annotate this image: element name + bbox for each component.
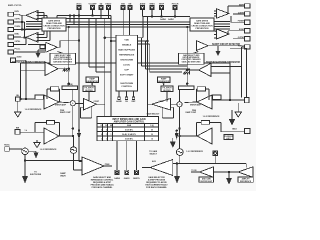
pin 6 [128,6,132,36]
svg-text:GAIN0: GAIN0 [114,177,120,180]
svg-text:TO SD: TO SD [191,170,197,172]
pin 4 [107,6,111,19]
svg-text:VREG: VREG [149,4,155,6]
resistor R20 [179,86,195,90]
wire staircase right [138,38,191,72]
wire mid horizontals [21,60,231,99]
svg-text:ERROR AMP: ERROR AMP [55,104,67,107]
wire top bus left [57,15,111,117]
IC bottom pin 1 [118,91,121,100]
op-amp A12 (left comparator lower) [21,62,70,76]
wire error to sum [59,101,70,104]
terminal P2 [8,20,22,24]
svg-text:REFERENCES: REFERENCES [119,54,134,56]
terminal R3 [231,16,250,25]
svg-text:+: + [72,102,74,106]
resistor R23 feedback [196,121,221,137]
svg-text:RAMP COMP: RAMP COMP [60,111,71,114]
resistor R21 input [213,95,222,99]
box OSC left [83,86,95,92]
wire osc3 down [142,156,246,177]
waveform icon right [183,72,189,75]
svg-text:1 k: 1 k [25,130,28,132]
ground G3 [235,103,242,117]
svg-text:LOGIC: LOGIC [123,64,130,66]
driver U6 (half-bridge, right bottom) [217,29,230,39]
svg-text:AVG: AVG [152,160,156,163]
svg-text:1.6-V REFERENCE: 1.6-V REFERENCE [203,116,220,118]
svg-text:STARTUP-SHUTDOWN COMPARATOR: STARTUP-SHUTDOWN COMPARATOR [12,60,45,64]
svg-text:BSPL: BSPL [15,11,20,13]
IC U7 bias supplies [116,35,138,91]
terminal labels right [238,4,245,47]
svg-text:COMP: COMP [94,101,100,103]
op-amp A4 (PWM comparator right) [147,99,170,111]
arrow ref left [77,131,81,140]
terminal R2 [233,12,250,16]
svg-text:(GAIN): (GAIN) [67,83,73,86]
svg-text:PWM: PWM [105,164,110,166]
svg-text:1: 1 [111,134,112,136]
pin 5 [121,6,125,36]
svg-text:G0: G0 [105,125,107,127]
wire U2 inputs [37,31,51,41]
svg-text:STARTUP-SHUTDOWN COMPARATOR: STARTUP-SHUTDOWN COMPARATOR [206,60,240,64]
svg-text:60: 60 [151,129,153,131]
svg-text:26 dB, 32 dB BTL: 26 dB, 32 dB BTL [122,134,136,136]
svg-text:REFERENCE: REFERENCE [240,181,252,183]
wire right lower [214,163,247,178]
svg-text:PGNDL: PGNDL [15,26,21,28]
pin 10 [173,6,177,17]
op-amp A14 (right comparator lower) [186,63,241,76]
arrow ref right [175,131,179,140]
resistor R22 feedback [196,87,209,102]
pin right bottom [213,151,218,164]
svg-text:GENERATOR: GENERATOR [87,80,99,83]
svg-text:BSNL: BSNL [15,34,20,36]
svg-text:OUTPL: OUTPL [15,19,21,21]
box U3 gate drive left [42,18,66,31]
svg-text:ENABLE: ENABLE [122,43,132,46]
wire top bus right [143,16,191,17]
caption bottom center-left [91,176,114,189]
ground G2 [34,140,40,148]
node dot B [20,130,80,132]
svg-text:WAVE: WAVE [60,175,66,178]
svg-text:SHUTDOWN: SHUTDOWN [120,83,133,85]
terminal INR left lower [15,130,44,135]
svg-text:G1: G1 [100,125,102,127]
pin PVCC [77,6,81,162]
wire left bridge [14,15,27,44]
wire osc to comp [89,83,93,102]
oscillator O2 [70,147,82,170]
IC bottom pin 3 [132,91,135,100]
svg-text:AVCC: AVCC [76,3,82,6]
op-amp A2 (error amp left) [44,95,59,109]
svg-text:BIAS SUPPLIES: BIAS SUPPLIES [118,48,135,51]
svg-text:1.6-V REFERENCE: 1.6-V REFERENCE [186,151,203,153]
text block left mid [50,53,76,64]
svg-text:1.6-V REFERENCE: 1.6-V REFERENCE [40,149,57,151]
svg-text:0: 0 [111,138,112,140]
wire U5 inputs [214,11,217,16]
driver U2 (half-bridge, left bottom) [26,33,38,43]
svg-text:UVP: UVP [124,69,129,71]
terminal P4 [8,35,26,39]
svg-text:1: 1 [106,138,107,140]
svg-text:OUTNL: OUTNL [15,41,21,43]
wire osc bottom [24,155,82,176]
label right comp [206,60,240,64]
svg-text:30: 30 [151,134,153,136]
wire U6 inputs [214,31,217,38]
box U4 gate drive right [190,18,214,31]
svg-text:BSPL PVCCL: BSPL PVCCL [8,5,22,7]
svg-text:SELECT: SELECT [149,153,157,155]
svg-text:VCLAMP: VCLAMP [89,3,98,6]
terminal R4 [228,29,250,35]
pin bottom 3 [135,141,139,175]
op-amp A13 (right comparator upper) [185,41,242,57]
wire R3 to S1 [72,90,74,101]
svg-text:1.6-V REFERENCE: 1.6-V REFERENCE [25,109,42,111]
wire pins 3-4 join [101,18,109,116]
resistor R11 input [35,95,44,99]
terminal INL [16,97,44,101]
svg-text:SE/BTL: SE/BTL [133,178,141,180]
wire bundle junctions [69,15,74,25]
svg-text:1: 1 [106,134,107,136]
svg-text:GENERATOR: GENERATOR [158,80,170,83]
ground G4 mid right [229,110,235,126]
wire A4 feedback [162,107,173,118]
pin 2 [91,6,95,16]
terminal R5 [233,37,250,41]
svg-text:0: 0 [106,129,107,131]
box ramp generator right [158,77,171,83]
svg-text:AGND: AGND [17,56,23,59]
svg-text:FAULT: FAULT [106,3,113,6]
IC bottom pin 2 [125,91,128,100]
node dot D [176,130,178,132]
wire long verticals center [104,17,148,117]
resistor R13 feedback [35,121,60,137]
svg-text:20 dB BTL: 20 dB BTL [125,129,133,131]
svg-text:GAIN0: GAIN0 [160,18,166,21]
svg-text:Z (k): Z (k) [150,125,154,127]
svg-text:PREVENTION: PREVENTION [195,28,209,30]
ground arrow G9 [226,178,232,185]
node dot C [186,26,188,86]
svg-text:RAMP COMP: RAMP COMP [186,111,197,114]
summing node S1 [70,101,83,106]
svg-text:AGND: AGND [140,3,146,6]
caption bottom right [145,176,168,189]
svg-text:PVCCL: PVCCL [15,49,21,51]
waveform icon left [63,69,69,72]
svg-text:FOR EACH CHANNEL: FOR EACH CHANNEL [146,186,168,189]
terminal R1 [228,4,250,14]
pin 7 [141,6,145,17]
resistor R12 feedback [47,87,60,102]
driver U5 (half-bridge, right top) [217,9,230,18]
svg-text:15: 15 [151,138,153,140]
box R ramp generator left [86,77,99,83]
terminal P6 [8,50,45,54]
wire gain bus label [160,18,174,21]
svg-text:SOFT START: SOFT START [120,73,134,76]
oscillator O1 [22,148,29,155]
ground arrow G7 [170,138,176,148]
op-amp A1 (PWM comparator left) [84,99,105,111]
terminal OUTA+ label [8,5,22,7]
ground arrow G8 [174,176,180,184]
terminal labels left [15,11,23,59]
svg-text:36 dB BTL: 36 dB BTL [125,138,133,140]
wire A1 feedback [81,107,92,118]
wire A3 out [59,106,74,147]
terminal P3 [8,27,40,31]
text block right mid [179,53,205,64]
pin bottom 1 [115,141,119,175]
op-amp A3 (input amp left) [44,128,59,144]
wire staircase left [89,18,111,72]
summing node S2 [171,90,183,107]
wire U1 inputs [37,13,48,19]
driver U1 (half-bridge, left top) [26,11,38,21]
svg-text:SHUTDOWN: SHUTDOWN [30,174,42,176]
svg-text:GAIN AND SWITCHES: GAIN AND SWITCHES [53,60,73,63]
svg-text:FOR EACH CHANNEL: FOR EACH CHANNEL [92,186,114,189]
terminal bottom left [5,147,22,152]
svg-text:1: 1 [111,129,112,131]
op-amp A8 (bottom right avg) [150,160,173,176]
svg-text:SHUTDOWN: SHUTDOWN [120,59,133,61]
svg-text:VDD: VDD [121,4,126,6]
svg-text:1: 1 [101,138,102,140]
wire error right to sum [184,101,197,104]
svg-text:CONTROL: CONTROL [121,86,132,88]
svg-text:ROSC: ROSC [4,145,10,147]
svg-text:VBYP: VBYP [159,4,165,6]
ground arrow G6 [22,176,28,184]
svg-text:GAIN1: GAIN1 [168,18,174,21]
svg-text:VDD: VDD [124,39,129,41]
box OSC right [161,86,173,92]
svg-text:GAIN AND SWITCHES: GAIN AND SWITCHES [182,60,202,63]
ground arrow G5 [28,151,38,158]
pin 3 [99,6,103,19]
svg-text:INPUT IMPEDANCE AND GAIN: INPUT IMPEDANCE AND GAIN [112,118,146,121]
table T1 gain truth table [97,117,159,141]
node dots mid wires [20,98,231,101]
ground G11 [216,51,221,56]
op-amp A10 (reference amp) [238,167,253,177]
svg-text:0: 0 [101,134,102,136]
terminal MODE right [221,129,250,134]
pin 8 [150,6,154,17]
svg-text:ERROR AMP: ERROR AMP [190,104,202,107]
op-amp A9 (output amp) [191,167,214,177]
node dot A [68,26,70,86]
box current limit [224,135,233,140]
svg-text:0: 0 [101,129,102,131]
caption bottom far left [60,172,66,178]
svg-text:COMP: COMP [159,101,165,103]
wire A6 out [179,107,197,149]
terminal INR right [212,98,249,103]
terminal P7 [11,58,27,63]
ground G10 [36,53,41,58]
oscillator O3 [176,149,183,156]
svg-text:PVCCR: PVCCR [172,4,179,6]
svg-text:GAIN1: GAIN1 [124,177,130,180]
op-amp A11 (left comparator upper) [28,40,80,56]
svg-text:SHORT CIRCUIT DETECTOR: SHORT CIRCUIT DETECTOR [212,42,240,46]
terminal P5 [8,43,22,47]
op-amp A5 (error amp right) [197,95,212,109]
terminal R6 [230,45,250,98]
wire pvcc vertical join [78,130,82,162]
svg-text:GAIN SELECT: GAIN SELECT [147,113,161,116]
wire osc right to comp [163,83,167,102]
ground G1 [15,101,22,117]
svg-text:AGND: AGND [116,100,122,103]
pin 9 [160,6,164,17]
svg-text:PREVENTION: PREVENTION [47,28,61,30]
pin bottom 2 [125,141,129,175]
op-amp A7 (bottom left) [82,157,112,175]
svg-text:+: + [179,103,181,107]
resistor R10 [62,86,78,90]
wire bundle across [26,22,230,30]
op-amp A6 (input amp right) [197,128,212,144]
terminal P1 [8,12,26,16]
svg-text:BUFFER AMP: BUFFER AMP [200,180,213,183]
label start-stop comparator [12,60,45,64]
